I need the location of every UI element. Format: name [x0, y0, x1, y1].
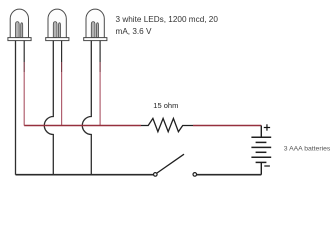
switch S1	[154, 154, 197, 176]
battery + terminal label	[264, 124, 270, 130]
bottom return bus wire (switch to LEDs cathode corner)	[16, 174, 154, 176]
red positive bus wire (left section, anodes to resistor)	[24, 125, 141, 127]
bottom return bus wire (battery to switch)	[197, 174, 262, 176]
LED D2 cathode lead wire with hop over red bus	[44, 41, 53, 175]
LED D3 anode lead stub (black)	[99, 41, 101, 62]
svg-text:15 ohm: 15 ohm	[153, 101, 178, 110]
LED D1 anode lead stub (black)	[23, 41, 25, 62]
LED D2 anode lead wire (dark red then red, to red bus)	[61, 62, 63, 72]
battery BT1 plates	[251, 137, 271, 162]
LED D1 cathode lead wire (black, down to bottom bus)	[15, 41, 17, 175]
LED D1	[8, 9, 31, 40]
svg-text:mA, 3.6 V: mA, 3.6 V	[116, 27, 152, 36]
svg-text:3 AAA batteries: 3 AAA batteries	[284, 146, 331, 153]
LED D3	[84, 9, 107, 40]
resistor R1 (15 ohm) zigzag	[141, 118, 193, 131]
LED D1 anode lead wire (dark red then red, to red bus)	[23, 62, 25, 72]
battery - terminal label	[264, 165, 270, 167]
red positive bus wire (right section, resistor to battery)	[193, 125, 261, 127]
battery BT1 top connection wire	[260, 126, 262, 138]
battery BT1 bottom connection wire	[260, 162, 262, 174]
svg-text:3 white LEDs, 1200 mcd, 20: 3 white LEDs, 1200 mcd, 20	[116, 15, 219, 24]
LED D3 cathode lead wire with hop over red bus	[82, 41, 91, 175]
LED D2	[46, 9, 69, 40]
LED D2 anode lead stub (black)	[61, 41, 63, 62]
LED D3 anode lead wire (dark red then red, to red bus)	[99, 62, 101, 72]
